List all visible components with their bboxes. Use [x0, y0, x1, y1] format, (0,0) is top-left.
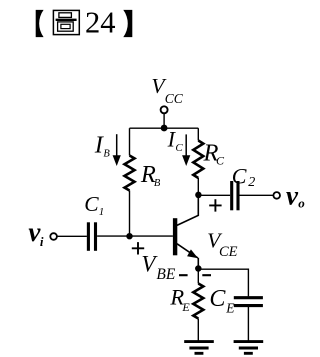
- wire emitter vertical: [197, 258, 199, 269]
- svg-text:1: 1: [99, 206, 105, 218]
- wire R_C bottom lead: [197, 178, 199, 195]
- plus sign V_CE: [209, 199, 221, 211]
- node emitter junction: [195, 265, 202, 272]
- svg-text:E: E: [225, 300, 235, 315]
- figure title bracket left: [36, 10, 44, 37]
- svg-text:C: C: [175, 142, 183, 154]
- svg-text:C: C: [84, 192, 99, 216]
- svg-text:CE: CE: [219, 244, 238, 260]
- terminal v_i: [50, 233, 57, 240]
- svg-text:B: B: [154, 178, 161, 189]
- ground right: [234, 342, 264, 354]
- capacitor C_E: [234, 296, 263, 299]
- current arrow I_B: [116, 134, 118, 156]
- node collector junction: [195, 192, 202, 199]
- svg-text:i: i: [40, 234, 44, 249]
- wire C1 to base: [97, 235, 173, 237]
- resistor R_C: [193, 141, 203, 179]
- svg-text:BE: BE: [156, 266, 175, 283]
- svg-text:o: o: [298, 196, 305, 211]
- minus sign V_BE: [179, 274, 188, 276]
- node base junction: [126, 233, 132, 239]
- svg-text:B: B: [103, 149, 110, 160]
- wire C_E to ground: [247, 306, 249, 342]
- wire collector to C2: [198, 194, 230, 196]
- transistor Q1 base bar: [173, 218, 177, 255]
- transistor Q1 emitter lead: [177, 244, 198, 258]
- svg-text:C: C: [209, 286, 226, 312]
- transistor Q1 collector lead: [177, 195, 198, 226]
- resistor R_E: [193, 284, 203, 319]
- svg-text:2: 2: [248, 175, 255, 190]
- terminal v_o: [273, 192, 280, 199]
- wire emitter to C_E branch: [198, 269, 248, 296]
- svg-text:v: v: [286, 180, 299, 210]
- wire R_B top lead: [129, 128, 131, 155]
- svg-text:C: C: [216, 154, 225, 168]
- wire V_CC stub: [163, 113, 165, 128]
- svg-text:E: E: [181, 300, 190, 314]
- svg-text:CC: CC: [165, 91, 184, 106]
- node V_CC junction: [161, 125, 168, 132]
- wire top rail: [130, 127, 199, 129]
- current arrow I_C: [185, 134, 187, 156]
- plus sign V_BE: [132, 242, 144, 254]
- resistor R_B: [125, 156, 135, 191]
- wire R_B bottom lead: [129, 191, 131, 237]
- transistor Q1 emitter arrowhead: [187, 249, 198, 258]
- svg-text:24: 24: [85, 6, 116, 40]
- wire emitter to R_E: [197, 269, 199, 284]
- capacitor C2: [230, 181, 233, 210]
- figure title character 圖: [53, 10, 79, 34]
- wire v_i to C1: [57, 235, 87, 237]
- minus sign V_CE: [202, 274, 211, 276]
- figure title bracket right: [123, 10, 132, 37]
- wire C2 to v_o: [239, 194, 273, 196]
- wire R_E to ground: [197, 319, 199, 342]
- terminal V_CC: [161, 106, 168, 113]
- capacitor C1: [87, 222, 90, 251]
- wire R_C top lead: [197, 128, 199, 140]
- ground left: [184, 342, 214, 354]
